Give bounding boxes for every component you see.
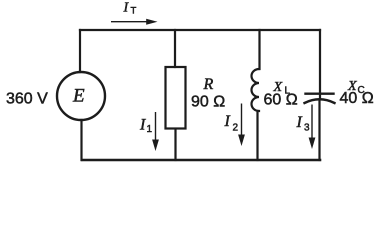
svg-text:I: I (123, 1, 130, 16)
svg-text:2: 2 (233, 123, 239, 134)
svg-text:1: 1 (147, 124, 153, 135)
svg-text:60 Ω: 60 Ω (264, 92, 298, 109)
svg-text:360 V: 360 V (6, 91, 48, 108)
svg-text:I: I (296, 114, 303, 131)
svg-text:E: E (72, 86, 85, 107)
svg-text:I: I (139, 117, 146, 134)
svg-text:R: R (203, 76, 214, 93)
svg-text:T: T (131, 6, 137, 17)
svg-text:I: I (224, 113, 231, 130)
svg-text:3: 3 (304, 123, 310, 134)
svg-text:90 Ω: 90 Ω (191, 94, 225, 111)
svg-text:40 Ω: 40 Ω (340, 90, 374, 107)
